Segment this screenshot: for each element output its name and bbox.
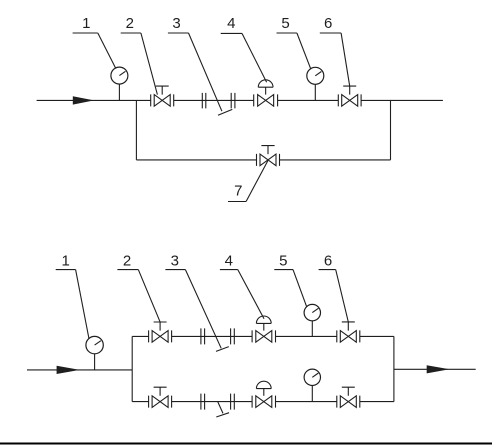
label 4b underline xyxy=(220,269,238,271)
union pair J1a xyxy=(201,328,205,344)
valve V2a end ticks xyxy=(149,330,172,342)
wire top branch segment D xyxy=(360,335,394,337)
union pair J2 xyxy=(231,93,235,109)
wire bottom branch segment B xyxy=(172,401,253,403)
svg-text:4: 4 xyxy=(225,252,233,269)
label 2 leader xyxy=(141,33,158,95)
label 5 underline xyxy=(277,32,297,34)
svg-text:2: 2 xyxy=(126,15,134,32)
label 7 underline xyxy=(228,201,246,203)
regulator valve U4a bowtie xyxy=(256,331,272,343)
valve V2b bowtie xyxy=(152,396,168,408)
pressure gauge PG5 body xyxy=(307,67,324,84)
valve V6b bowtie xyxy=(340,396,356,408)
wire top branch segment B xyxy=(172,335,253,337)
pressure gauge PG5b stem xyxy=(311,386,313,402)
regulator valve U4a end ticks xyxy=(252,330,275,342)
pressure gauge PG1b stem xyxy=(94,354,96,370)
label 4 leader xyxy=(242,33,267,82)
label 6 underline xyxy=(320,32,341,34)
svg-text:4: 4 xyxy=(227,15,235,32)
wire outlet pipe xyxy=(394,368,476,370)
valve V6a bowtie xyxy=(340,331,356,343)
valve V6a handle xyxy=(342,322,355,331)
pressure gauge PG5b body xyxy=(304,369,320,385)
label 2b underline xyxy=(117,269,138,271)
valve V7 end ticks xyxy=(257,154,280,166)
union pair J1b xyxy=(201,394,205,410)
label 3b leader tick xyxy=(216,347,229,352)
label 1 leader xyxy=(98,33,116,68)
label 5b underline xyxy=(274,269,293,271)
svg-text:3: 3 xyxy=(172,15,180,32)
regulator valve U4b stem xyxy=(263,389,265,396)
valve V2b end ticks xyxy=(149,396,172,408)
svg-text:2: 2 xyxy=(123,252,131,269)
label 6b leader xyxy=(336,270,349,322)
valve V7 bowtie xyxy=(260,154,276,166)
pressure gauge PG5 needle xyxy=(315,72,321,76)
label 6 leader xyxy=(341,33,350,86)
wire main pipe segment B xyxy=(174,99,254,101)
valve V6b end ticks xyxy=(337,396,360,408)
regulator valve U4 bowtie xyxy=(258,95,274,107)
regulator valve U4 stem xyxy=(265,87,267,94)
label 7 leader xyxy=(246,161,268,202)
pressure gauge PG1b needle xyxy=(95,341,101,345)
pressure gauge PG1 needle xyxy=(119,71,125,75)
pressure gauge PG1b body xyxy=(86,336,103,353)
svg-text:1: 1 xyxy=(82,15,90,32)
label 3 underline xyxy=(168,32,189,34)
label 3b underline xyxy=(165,269,185,271)
valve V6b handle xyxy=(342,387,355,396)
wire bypass bottom run left xyxy=(136,159,256,161)
wire bottom branch segment C xyxy=(276,401,337,403)
valve V7 handle xyxy=(261,146,274,155)
wire main pipe segment C xyxy=(278,99,339,101)
wire bottom branch segment A xyxy=(132,401,148,403)
svg-text:1: 1 xyxy=(62,252,70,269)
label 1 underline xyxy=(73,32,98,34)
valve V2 end ticks xyxy=(151,94,174,106)
pressure gauge PG1 body xyxy=(111,67,128,84)
valve V2 bowtie xyxy=(154,95,170,107)
pressure gauge PG5b needle xyxy=(312,373,318,377)
svg-text:5: 5 xyxy=(281,15,289,32)
svg-text:5: 5 xyxy=(279,252,287,269)
label 3b leader xyxy=(185,270,221,349)
valve V6a end ticks xyxy=(337,330,360,342)
label 4 underline xyxy=(221,32,242,34)
label 5b leader xyxy=(293,270,307,307)
label 2b leader xyxy=(138,270,160,322)
wire merge downcomer xyxy=(393,336,395,401)
wire branch tee vertical xyxy=(131,336,133,401)
label 1b underline xyxy=(56,269,76,271)
pressure gauge PG5a body xyxy=(304,304,320,320)
valve V6 bowtie xyxy=(342,95,358,107)
regulator valve U4a stem xyxy=(263,323,265,330)
pressure gauge PG5a needle xyxy=(312,308,318,312)
union pair J2a xyxy=(231,328,235,344)
svg-text:7: 7 xyxy=(234,182,242,199)
wire bypass left drop xyxy=(135,100,137,159)
flow arrow inlet top xyxy=(73,96,94,104)
union pair J2b xyxy=(231,394,235,410)
valve V2a bowtie xyxy=(152,331,168,343)
wire bottom branch segment D xyxy=(360,401,394,403)
union pair J1 xyxy=(202,93,206,109)
wire top branch segment A xyxy=(132,335,148,337)
wire inlet pipe bottom xyxy=(27,369,132,371)
regulator valve U4a diaphragm dome xyxy=(256,316,271,323)
wire top branch segment C xyxy=(276,335,337,337)
label 2 underline xyxy=(121,32,141,34)
pressure gauge PG5 stem xyxy=(314,84,316,100)
valve V2b handle xyxy=(154,387,167,396)
pressure gauge PG5a stem xyxy=(311,321,313,337)
label 5 leader xyxy=(297,33,311,69)
regulator valve U4b bowtie xyxy=(256,396,272,408)
label 6b underline xyxy=(319,269,336,271)
flow arrow outlet xyxy=(427,365,450,373)
label 3 leader tick xyxy=(218,109,232,115)
regulator valve U4 diaphragm dome xyxy=(258,80,273,87)
valve V2 handle xyxy=(156,86,169,95)
svg-text:6: 6 xyxy=(324,15,332,32)
leader stub tick bottom branch xyxy=(216,402,229,417)
flow arrow inlet bottom xyxy=(57,366,80,374)
valve V6 end ticks xyxy=(338,94,361,106)
valve V6 handle xyxy=(343,86,356,95)
wire main pipe segment D xyxy=(361,99,443,101)
regulator valve U4 end ticks xyxy=(254,94,278,106)
regulator valve U4b diaphragm dome xyxy=(256,381,271,388)
label 1b leader xyxy=(76,270,89,339)
valve V2a handle xyxy=(154,322,167,331)
wire bypass bottom run right xyxy=(280,159,391,161)
label 4b leader xyxy=(238,270,264,319)
bottom border line xyxy=(0,443,492,445)
label 3 leader xyxy=(189,33,222,111)
svg-text:6: 6 xyxy=(324,252,332,269)
wire main pipe segment A xyxy=(37,99,151,101)
regulator valve U4b end ticks xyxy=(252,396,275,408)
svg-text:3: 3 xyxy=(171,252,179,269)
wire bypass right riser xyxy=(390,100,392,159)
pressure gauge PG1 stem xyxy=(118,84,120,100)
